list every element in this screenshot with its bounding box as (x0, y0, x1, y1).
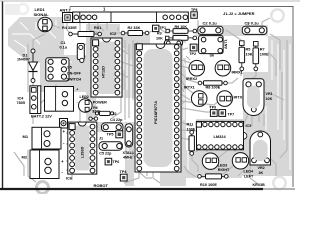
resistor R8 100E (198, 81, 227, 90)
IR transmitter IRTX1 (191, 91, 207, 107)
test point TP1 (153, 25, 167, 31)
svg-text:R4 330E: R4 330E (62, 26, 77, 30)
svg-text:LEFT: LEFT (244, 174, 254, 178)
svg-text:SIGNAL: SIGNAL (34, 12, 50, 17)
svg-text:R5: R5 (246, 48, 251, 52)
board outline (70, 7, 293, 188)
LED1 SIGNAL (34, 7, 53, 32)
svg-text:VR1: VR1 (266, 92, 273, 96)
resistor R3 10K (156, 32, 197, 41)
svg-text:ANT1: ANT1 (224, 39, 228, 49)
capacitor C4 22p (102, 118, 124, 132)
wire traces (14, 12, 287, 184)
faint pad top-left (5, 4, 20, 15)
svg-text:C4 22p: C4 22p (110, 118, 123, 122)
svg-text:IC6: IC6 (66, 177, 72, 181)
antenna pad ANT.2 (60, 8, 73, 23)
svg-text:2K: 2K (259, 171, 264, 175)
svg-text:IRRX2: IRRX2 (186, 77, 197, 81)
switch S6 (199, 36, 224, 58)
svg-text:J1-J2 = JUMPER: J1-J2 = JUMPER (223, 11, 255, 16)
svg-text:R11: R11 (187, 123, 194, 127)
svg-text:C1: C1 (61, 41, 66, 45)
svg-text:C5 22p: C5 22p (99, 152, 112, 156)
svg-text:IRRX1: IRRX1 (232, 71, 243, 75)
svg-text:VR2: VR2 (258, 166, 265, 170)
svg-text:0.1u: 0.1u (60, 46, 68, 50)
svg-text:TP4: TP4 (120, 170, 128, 174)
resistor R9 10K (166, 25, 197, 33)
test point TP8 (191, 8, 198, 18)
IC6 L293D motor driver (66, 122, 97, 180)
svg-text:IRTX1: IRTX1 (184, 86, 195, 90)
svg-text:IC5: IC5 (246, 124, 252, 128)
svg-text:R3: R3 (157, 32, 162, 36)
svg-text:R10 100E: R10 100E (200, 183, 217, 187)
IC4 7805 regulator (17, 86, 41, 114)
resistor R4 330E (62, 26, 101, 37)
svg-text:ANT.2: ANT.2 (60, 8, 72, 13)
svg-text:RIGHT: RIGHT (218, 168, 230, 172)
mounting hole bottom-left (37, 182, 49, 194)
IR transmitter IRTX2 (217, 91, 244, 107)
svg-text:R7: R7 (260, 48, 265, 52)
battery connector BATT.2 12V (31, 87, 79, 119)
resistor R11 100E (187, 123, 196, 156)
pour clearance veins (12, 20, 290, 170)
test point TP7 (219, 110, 234, 117)
svg-text:XTAL1: XTAL1 (123, 151, 134, 155)
resistor R2 33K (121, 26, 149, 36)
svg-text:S6: S6 (210, 54, 215, 58)
svg-text:POWER: POWER (93, 100, 107, 104)
capacitor C5 22p (99, 142, 122, 156)
crystal XTAL1 4MHz (123, 124, 134, 160)
svg-text:PIC16F877A: PIC16F877A (153, 101, 158, 124)
svg-text:J2: J2 (113, 112, 117, 116)
svg-text:IC4: IC4 (18, 97, 25, 101)
svg-text:10K: 10K (266, 97, 273, 101)
svg-text:4MHz: 4MHz (123, 155, 133, 159)
resistor R10 100E (198, 174, 228, 187)
resistor R5 10K (239, 41, 253, 71)
svg-text:7805: 7805 (17, 101, 25, 105)
IC5 LM324 op-amp (196, 121, 251, 149)
svg-text:TP9: TP9 (210, 105, 217, 109)
svg-text:ON-OFF: ON-OFF (67, 71, 82, 75)
IC3 PIC16F877A microcontroller (135, 44, 181, 172)
svg-text:SWITCH: SWITCH (67, 78, 82, 82)
connector CON1 header strip (73, 7, 189, 23)
test point TP9 (210, 105, 218, 116)
page frame (2, 2, 4, 190)
motor terminal M1 (23, 127, 66, 149)
test point TP4 (120, 170, 128, 181)
motor terminal M2 (22, 150, 65, 179)
svg-text:IC2: IC2 (110, 31, 117, 36)
svg-text:10K: 10K (156, 36, 163, 40)
jumper J1 (165, 40, 183, 46)
svg-text:ROBOT: ROBOT (94, 183, 109, 188)
svg-text:LED4: LED4 (244, 170, 254, 174)
svg-text:C3 0.1u: C3 0.1u (245, 21, 260, 26)
svg-text:S5: S5 (67, 66, 72, 70)
preset VR1 10K (243, 79, 273, 116)
LED3 RIGHT (202, 153, 230, 172)
svg-text:TP7: TP7 (228, 112, 235, 116)
svg-text:BATT.2 12V: BATT.2 12V (31, 113, 52, 118)
svg-text:+: + (63, 129, 66, 134)
resistor R7 100E (253, 42, 269, 71)
IR receiver IRRX2 (186, 60, 205, 80)
LED4 LEFT (232, 153, 254, 179)
svg-text:TP5: TP5 (107, 133, 114, 137)
diode D1 1N4007 (17, 49, 38, 83)
test point TP2 (189, 44, 197, 56)
svg-text:TP6: TP6 (113, 160, 120, 164)
svg-text:L293D: L293D (81, 146, 85, 158)
svg-text:M2: M2 (22, 155, 28, 160)
svg-text:100E: 100E (260, 53, 269, 57)
test point TP5 (107, 131, 123, 138)
svg-text:RX1: RX1 (94, 26, 101, 30)
capacitor C3 0.1u (242, 21, 266, 35)
svg-text:C2 0.1u: C2 0.1u (203, 21, 218, 26)
svg-text:LM324: LM324 (214, 134, 227, 139)
svg-text:TP2: TP2 (189, 52, 196, 56)
switch S5 ON/OFF (46, 58, 82, 82)
svg-text:TP1: TP1 (159, 26, 166, 30)
svg-text:HT12D: HT12D (102, 66, 106, 78)
capacitor C2 0.1u (198, 21, 223, 35)
svg-text:M1: M1 (23, 134, 29, 139)
svg-text:+: + (61, 159, 64, 164)
jumper J2 (89, 112, 117, 120)
svg-text:1N4007: 1N4007 (17, 58, 30, 62)
pad connector D2 (60, 119, 68, 129)
LED2 POWER (79, 95, 108, 112)
svg-text:R2 33K: R2 33K (128, 26, 141, 30)
capacitor C1 0.1u (60, 41, 85, 63)
test point TP6 (105, 158, 119, 165)
svg-text:10K: 10K (246, 53, 253, 57)
jumper J1 (crystal area) (99, 136, 103, 140)
svg-text:J1: J1 (99, 136, 103, 140)
resistor R6 330E (92, 106, 113, 116)
svg-text:+: + (76, 88, 78, 92)
mounting hole bottom-right (273, 177, 285, 189)
preset VR2 2K (250, 131, 271, 175)
copper pour plane (8, 17, 292, 186)
mounting hole top-right (271, 9, 283, 21)
IR receiver IRRX1 (215, 60, 243, 76)
svg-text:R8 100E: R8 100E (206, 86, 221, 90)
svg-text:KRX3B: KRX3B (253, 183, 266, 187)
IC2 HT12D decoder (91, 31, 122, 97)
